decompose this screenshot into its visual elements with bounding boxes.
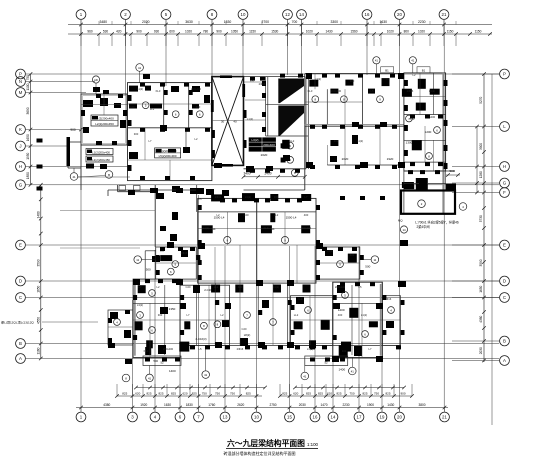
- wall pier: [419, 179, 427, 190]
- leader bubble: [134, 256, 142, 264]
- wall pier: [430, 89, 440, 95]
- svg-text:L1(2): L1(2): [273, 285, 279, 289]
- axis vertical line (bottom) x=155: [154, 250, 156, 408]
- svg-text:P: P: [503, 72, 506, 77]
- svg-text:825: 825: [192, 392, 197, 396]
- svg-text:1950: 1950: [26, 152, 30, 159]
- right dimension line: [483, 74, 485, 362]
- wall pier: [301, 194, 311, 201]
- wall pier: [261, 225, 272, 233]
- svg-text:A: A: [503, 358, 506, 363]
- svg-text:40: 40: [233, 120, 237, 124]
- wall pier: [129, 152, 138, 159]
- left dim ticks: [29, 72, 33, 76]
- svg-text:825: 825: [318, 392, 323, 396]
- wall pier: [152, 256, 160, 262]
- axis bubble 15 (bottom): [285, 412, 295, 422]
- svg-text:900: 900: [70, 128, 76, 132]
- wall pier: [192, 104, 199, 109]
- svg-text:20: 20: [397, 12, 402, 17]
- svg-text:41: 41: [351, 369, 355, 373]
- axis line A: [26, 358, 499, 360]
- svg-text:300: 300: [350, 79, 355, 83]
- svg-text:3480: 3480: [99, 20, 107, 24]
- svg-text:300: 300: [158, 313, 163, 317]
- wall pier: [135, 321, 143, 330]
- svg-text:C: C: [19, 295, 22, 300]
- svg-text:930: 930: [154, 30, 160, 34]
- svg-text:1630: 1630: [164, 403, 171, 407]
- svg-text:2620: 2620: [237, 403, 244, 407]
- svg-text:L2(2)200x450: L2(2)200x450: [95, 122, 114, 126]
- svg-text:A: A: [19, 356, 22, 361]
- top dim ticks row2: [79, 32, 83, 36]
- svg-text:3690: 3690: [26, 107, 30, 114]
- axis bubble 16 (top): [362, 10, 372, 20]
- svg-text:3300: 3300: [330, 20, 338, 24]
- svg-text:1850: 1850: [26, 172, 30, 179]
- svg-text:500: 500: [449, 169, 454, 173]
- title underline: [226, 447, 318, 449]
- beam circle: [291, 169, 298, 176]
- svg-text:2700: 2700: [261, 20, 269, 24]
- svg-text:L1(2): L1(2): [357, 139, 363, 143]
- svg-text:G: G: [19, 183, 23, 188]
- shaft wall pier west: [211, 100, 214, 112]
- svg-text:L7: L7: [139, 285, 142, 289]
- svg-text:41: 41: [375, 59, 379, 63]
- svg-text:500: 500: [146, 268, 151, 272]
- svg-text:825: 825: [158, 392, 163, 396]
- leader line y177: [78, 176, 130, 178]
- wall: [404, 161, 446, 163]
- svg-text:1400: 1400: [338, 368, 345, 372]
- axis 14 leader (top): [301, 20, 303, 36]
- wall tab: [119, 186, 126, 191]
- axis 16 leader (top): [366, 20, 368, 36]
- detail leader: [95, 83, 97, 94]
- beam circle: [201, 322, 208, 329]
- svg-text:L3(2): L3(2): [429, 89, 435, 93]
- svg-text:16: 16: [313, 415, 318, 420]
- axis 17 leader (bottom): [358, 408, 360, 412]
- wall piers (texture): [128, 190, 135, 195]
- top chain extra ticks: [468, 32, 472, 36]
- svg-text:700: 700: [292, 20, 298, 24]
- note leader: [42, 321, 98, 323]
- detail bubble: [459, 203, 467, 211]
- axis vertical line (bottom) x=132.5: [132, 300, 134, 408]
- wing north wall: [68, 141, 81, 143]
- svg-text:2Φ14: 2Φ14: [268, 227, 275, 231]
- axis 6 leader (bottom): [179, 408, 181, 412]
- svg-text:1920: 1920: [387, 157, 394, 161]
- svg-text:1100: 1100: [26, 83, 30, 90]
- wall: [287, 283, 289, 345]
- axis 20 leader (top): [399, 20, 401, 36]
- wall pier: [183, 147, 190, 153]
- beam label table (dark): [249, 137, 276, 151]
- svg-text:1480: 1480: [36, 211, 40, 218]
- svg-text:900: 900: [136, 30, 142, 34]
- svg-text:14: 14: [299, 12, 304, 17]
- axis 19 leader (bottom): [381, 408, 383, 412]
- svg-text:LL2: LL2: [294, 313, 299, 317]
- room (lower right): [382, 296, 400, 346]
- leader bubble: [301, 372, 309, 380]
- svg-text:L7: L7: [305, 195, 308, 199]
- wall pier: [235, 285, 243, 293]
- svg-text:L3(2): L3(2): [245, 195, 251, 199]
- wall: [196, 185, 198, 212]
- wall: [164, 285, 166, 355]
- svg-text:C20: C20: [186, 285, 191, 289]
- axis line C: [26, 297, 499, 299]
- left annex room: [108, 310, 133, 345]
- svg-text:12: 12: [285, 12, 290, 17]
- svg-text:2020: 2020: [261, 153, 268, 157]
- svg-text:750: 750: [230, 392, 235, 396]
- leader bubble: [122, 374, 130, 382]
- wall pier: [167, 242, 174, 248]
- svg-text:900: 900: [216, 30, 222, 34]
- leader line: [142, 259, 156, 261]
- svg-text:2Φ14: 2Φ14: [209, 227, 216, 231]
- axis 10 leader (bottom): [256, 408, 258, 412]
- svg-text:1430: 1430: [387, 403, 394, 407]
- wall pier: [103, 90, 109, 94]
- left unit gray west wall: [134, 281, 136, 356]
- beam circle: [337, 261, 344, 268]
- axis bubble 16 (bottom): [310, 412, 320, 422]
- table divider: [155, 152, 181, 154]
- leader line: [60, 210, 155, 212]
- axis line K: [26, 129, 80, 131]
- svg-text:900: 900: [400, 392, 405, 396]
- svg-text:D: D: [19, 279, 22, 284]
- svg-text:C20: C20: [256, 139, 261, 143]
- wall pier: [114, 103, 121, 108]
- svg-text:10: 10: [241, 12, 246, 17]
- wall: [188, 83, 190, 128]
- axis bubble A (right): [500, 356, 510, 366]
- wall: [257, 283, 259, 345]
- band right room: [316, 247, 360, 279]
- left dimension line (upper): [30, 74, 32, 185]
- stair east wall line 2: [307, 74, 309, 169]
- svg-text:10: 10: [254, 415, 259, 420]
- svg-text:L1(2): L1(2): [203, 226, 209, 230]
- svg-text:1020: 1020: [185, 30, 192, 34]
- leader: [205, 345, 207, 370]
- svg-text:L7: L7: [387, 77, 390, 81]
- svg-text:960: 960: [87, 30, 93, 34]
- wall pier: [273, 285, 281, 293]
- svg-text:P: P: [19, 72, 22, 77]
- right unit east wall line: [445, 73, 447, 190]
- svg-text:1760: 1760: [208, 403, 215, 407]
- wall pier: [281, 158, 286, 163]
- svg-text:KL3: KL3: [298, 297, 303, 301]
- beam label table: [155, 148, 181, 158]
- svg-text:1830: 1830: [186, 403, 193, 407]
- svg-text:21: 21: [442, 12, 447, 17]
- svg-text:梁L(顶12Q),顶L(13)12Q: 梁L(顶12Q),顶L(13)12Q: [1, 320, 34, 325]
- axis bubble M (left): [16, 88, 26, 98]
- stair wall piers: [262, 81, 266, 86]
- axis bubble C (left): [16, 293, 26, 303]
- wing west wall: [67, 142, 69, 168]
- svg-text:750: 750: [202, 392, 207, 396]
- svg-text:L1(2)200x400: L1(2)200x400: [92, 150, 110, 154]
- svg-text:41: 41: [411, 59, 415, 63]
- axis 1 leader (bottom): [80, 408, 82, 412]
- svg-text:19: 19: [380, 415, 385, 420]
- wall pier: [192, 86, 200, 92]
- axis bubble E (left): [16, 240, 26, 250]
- svg-text:C20: C20: [242, 327, 247, 331]
- beam circle: [388, 307, 395, 314]
- svg-text:1350: 1350: [169, 307, 176, 311]
- svg-text:200x400: 200x400: [331, 89, 342, 93]
- svg-text:200x400: 200x400: [263, 143, 275, 147]
- leader bubble: [146, 374, 154, 382]
- wall pier: [120, 120, 126, 128]
- wall pier: [270, 213, 275, 222]
- beam circle: [287, 142, 294, 149]
- axis 8 leader (top): [211, 20, 213, 36]
- svg-text:530: 530: [103, 30, 109, 34]
- leader line: [60, 247, 140, 249]
- svg-text:620: 620: [182, 392, 187, 396]
- svg-text:H: H: [503, 164, 506, 169]
- wall pier: [283, 155, 290, 161]
- wall tab: [134, 186, 141, 191]
- bottom dimension line 3 (left): [136, 387, 265, 389]
- middle band divider wall: [256, 198, 258, 283]
- leader: [73, 168, 75, 173]
- svg-text:L2: L2: [413, 73, 416, 77]
- svg-text:1200: 1200: [425, 130, 432, 134]
- wall pier: [129, 104, 137, 109]
- svg-text:L2: L2: [157, 285, 160, 289]
- wall pier: [160, 307, 168, 314]
- axis vertical line (bottom) x=180: [179, 282, 181, 408]
- svg-text:L3(2): L3(2): [137, 303, 143, 307]
- svg-text:L8(2): L8(2): [244, 333, 251, 337]
- right unit east gray wall: [442, 73, 444, 214]
- wall pier: [402, 182, 414, 188]
- stepped wall vertical: [117, 185, 119, 192]
- svg-text:F: F: [503, 190, 506, 195]
- wall pier: [83, 127, 89, 133]
- right axis leader stubs: [452, 73, 499, 75]
- stair east wall: [305, 77, 307, 169]
- beam stub: [185, 131, 187, 148]
- balcony left: [143, 356, 181, 366]
- wall axis 14: [304, 74, 306, 190]
- axis vertical stub x=166: [165, 25, 167, 87]
- svg-text:2030: 2030: [299, 403, 306, 407]
- wing south wall: [68, 167, 81, 169]
- svg-text:L1(2): L1(2): [137, 87, 143, 91]
- svg-text:41: 41: [204, 373, 208, 377]
- svg-text:LL2: LL2: [274, 213, 279, 217]
- wall: [433, 73, 435, 115]
- middle band outline: [198, 198, 316, 283]
- svg-text:5270: 5270: [479, 96, 483, 103]
- svg-text:300: 300: [342, 349, 347, 353]
- table header cell: [92, 116, 98, 120]
- svg-text:2-C16(3): 2-C16(3): [195, 337, 206, 341]
- table inner lines: [249, 137, 276, 151]
- beam number circle: [142, 102, 149, 109]
- circled number: [418, 200, 426, 208]
- svg-text:L3(2): L3(2): [327, 249, 333, 253]
- svg-text:1530: 1530: [224, 20, 232, 24]
- wall pier: [325, 250, 333, 256]
- axis vertical stub x=243: [242, 25, 244, 78]
- right unit outline: [404, 73, 446, 171]
- beam circle: [167, 268, 174, 275]
- wall pier: [86, 164, 94, 169]
- wall pier: [309, 80, 318, 87]
- right vertical line: [491, 74, 493, 425]
- heavy black room (MQ wall): [401, 191, 455, 214]
- beam circle: [426, 153, 433, 160]
- svg-text:L1(2): L1(2): [247, 117, 253, 121]
- svg-text:780: 780: [203, 30, 209, 34]
- wall: [133, 302, 180, 304]
- beam label table 2: [86, 149, 113, 155]
- axis bubble 14 (top): [297, 10, 307, 20]
- leader: [412, 64, 414, 73]
- axis bubble J (left): [16, 141, 26, 151]
- axis bubble 6 (bottom): [175, 412, 185, 422]
- svg-text:L2: L2: [217, 213, 220, 217]
- shaft X diagonal 1: [212, 77, 244, 166]
- bottom dimension line 3 (right): [295, 387, 404, 389]
- wall pier: [301, 225, 310, 233]
- right dimension line 2: [476, 127, 478, 193]
- axis bubble 1 (bottom): [76, 412, 86, 422]
- svg-text:KL3: KL3: [264, 226, 269, 230]
- svg-text:400: 400: [238, 285, 243, 289]
- svg-text:300: 300: [350, 253, 355, 257]
- svg-text:E: E: [503, 243, 506, 248]
- beam label table: [91, 115, 118, 126]
- svg-text:1530: 1530: [271, 30, 278, 34]
- svg-text:L5: L5: [199, 197, 202, 201]
- svg-text:14: 14: [331, 415, 336, 420]
- axis 1 vertical line: [80, 25, 82, 408]
- wall: [244, 189, 305, 191]
- bottom dim ticks row2 right: [278, 394, 282, 398]
- small label box: [381, 67, 394, 73]
- svg-text:420: 420: [116, 30, 122, 34]
- svg-text:11: 11: [136, 258, 139, 262]
- beam circle: [305, 307, 312, 314]
- beam circle: [149, 327, 156, 334]
- axis bubble 17 (bottom): [354, 412, 364, 422]
- wall pier: [145, 86, 151, 91]
- wall: [108, 189, 198, 191]
- wall pier: [211, 194, 224, 201]
- wall: [404, 114, 446, 116]
- axis bubble L (right): [500, 122, 510, 132]
- svg-text:2Φ16: 2Φ16: [181, 251, 188, 255]
- svg-text:N: N: [19, 79, 22, 84]
- axis bubble 21 (top): [439, 10, 449, 20]
- axis vertical stub x=301.5: [301, 25, 303, 76]
- room (lower mid-left): [180, 285, 229, 345]
- svg-text:1500 L4: 1500 L4: [286, 216, 297, 220]
- axis bubble 14 (bottom): [328, 412, 338, 422]
- table header cell 2: [168, 149, 176, 153]
- svg-text:1650: 1650: [36, 285, 40, 292]
- wall pier: [339, 345, 348, 357]
- svg-text:LL2: LL2: [150, 107, 155, 111]
- wall pier: [416, 178, 428, 190]
- axis 4 leader (bottom): [154, 408, 156, 412]
- svg-text:1430: 1430: [325, 30, 332, 34]
- top dim ticks row1: [79, 23, 83, 27]
- wall pier: [138, 285, 146, 293]
- wall pier: [321, 320, 330, 330]
- wall pier: [156, 193, 164, 199]
- svg-text:1150: 1150: [249, 30, 256, 34]
- axis bubble C (right): [500, 293, 510, 303]
- svg-text:2230: 2230: [342, 403, 349, 407]
- beam circle: [312, 96, 319, 103]
- wall pier: [171, 86, 179, 92]
- axis bubble 20 (bottom): [395, 412, 405, 422]
- beam circle: [149, 290, 156, 297]
- beam circle: [377, 96, 384, 103]
- room upper-left inner wall line: [83, 96, 126, 144]
- beam circle: [270, 319, 277, 326]
- right dim ticks: [482, 72, 486, 76]
- axis vertical line (bottom) x=256.5: [256, 200, 258, 408]
- wall (mid horizontal): [128, 127, 212, 129]
- axis bubble 5 (top): [161, 10, 171, 20]
- right unit gray east wall: [380, 284, 382, 356]
- shaft X diagonal 2: [212, 77, 244, 166]
- wall pier: [124, 330, 131, 338]
- balcony right: [305, 356, 348, 366]
- axis 13 leader (bottom): [224, 408, 226, 412]
- svg-text:14: 14: [402, 228, 406, 232]
- beam circle: [406, 115, 413, 122]
- axis bubble D (left): [16, 276, 26, 286]
- svg-text:L:700x1 纵向2梁5梁7，纵梁46: L:700x1 纵向2梁5梁7，纵梁46: [415, 220, 459, 225]
- wall pier: [369, 321, 378, 327]
- wall pier: [348, 254, 357, 263]
- wall below stairs: [244, 168, 307, 170]
- axis 7 leader (bottom): [198, 408, 200, 412]
- beam line: [128, 159, 212, 161]
- axis bubble H (left): [16, 162, 26, 172]
- svg-text:825: 825: [282, 392, 287, 396]
- svg-text:1650: 1650: [26, 134, 30, 141]
- beam circle: [342, 292, 349, 299]
- north wall (top-right rooms): [305, 73, 404, 75]
- svg-text:KL3: KL3: [156, 89, 161, 93]
- stair landing line: [266, 103, 309, 105]
- detail bubble: [70, 173, 78, 181]
- wall pier: [204, 95, 210, 103]
- svg-text:L2: L2: [195, 137, 198, 141]
